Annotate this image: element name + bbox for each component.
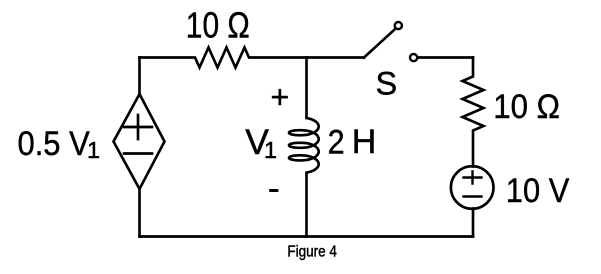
svg-text:10 Ω: 10 Ω [493, 88, 560, 126]
svg-text:1: 1 [87, 137, 100, 163]
svg-text:1: 1 [264, 137, 277, 163]
svg-text:Figure 4: Figure 4 [287, 244, 337, 261]
svg-text:2: 2 [328, 124, 345, 162]
svg-text:10 V: 10 V [506, 172, 570, 210]
svg-text:+: + [271, 79, 290, 115]
svg-text:S: S [376, 66, 398, 102]
svg-text:0.5 V: 0.5 V [18, 125, 90, 163]
svg-text:H: H [352, 123, 377, 161]
svg-text:10 Ω: 10 Ω [186, 5, 250, 45]
